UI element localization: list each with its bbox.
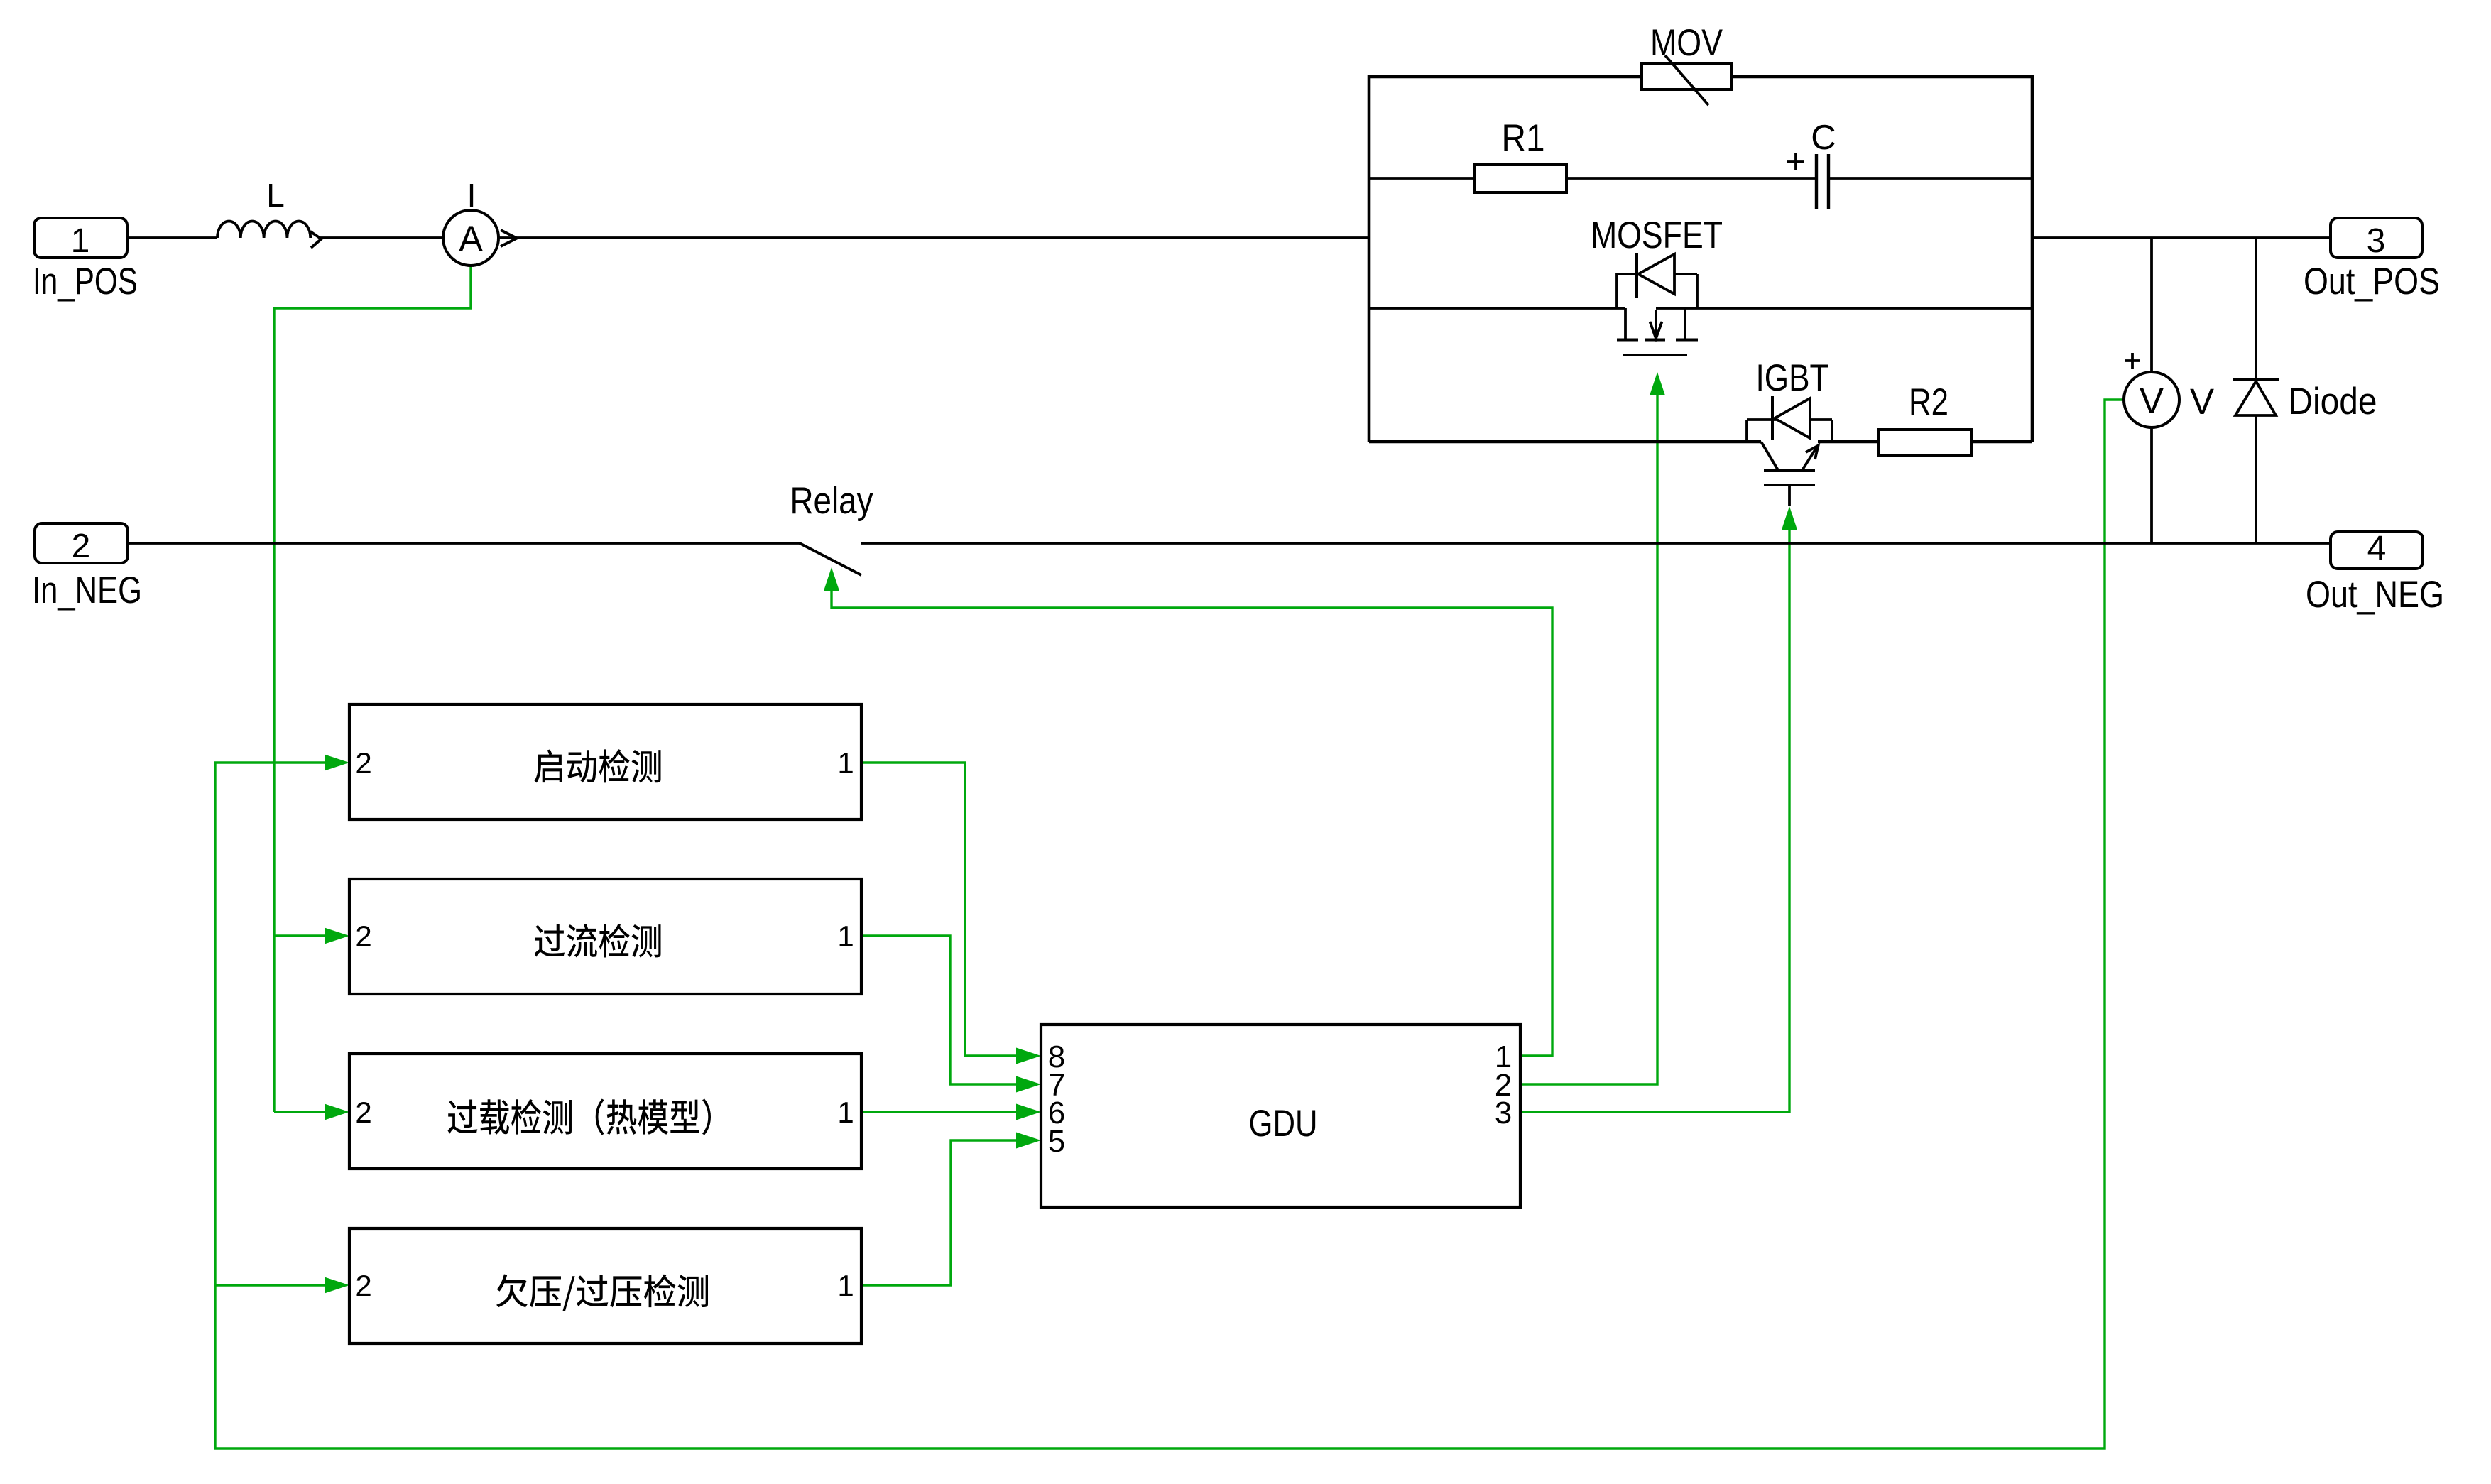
svg-text:2: 2 [72,528,91,565]
wire arrow after inductor [310,231,322,248]
overcurrent detection block 过流检测 [349,879,861,994]
wire GDU pin 2 to MOSFET gate [1520,394,1657,1084]
wire ammeter to snubber block [498,236,1369,239]
svg-text:2: 2 [355,1269,371,1302]
capacitor C [1815,154,1818,209]
under/over-voltage detection block 欠压/过压检测 [349,1228,861,1343]
arrow at IGBT gate [1782,506,1797,530]
svg-text:1: 1 [71,222,90,260]
wire arrow after ammeter [501,230,517,246]
svg-text:L: L [266,177,285,214]
wire snubber block to terminal 3 [2032,236,2331,239]
svg-text:2: 2 [355,1096,371,1129]
svg-text:1: 1 [837,746,854,780]
wire GDU pin 3 to IGBT gate [1520,528,1789,1112]
snubber block outer box [1369,77,2032,442]
svg-text:1: 1 [837,920,854,953]
wire overcurrent block output to GDU pin 7 [861,936,1018,1084]
terminal 1 In_POS [34,218,127,258]
svg-text:Relay: Relay [790,480,873,522]
wire R2 to right edge [1971,440,2032,443]
svg-text:1: 1 [837,1096,854,1129]
startup detection block 启动检测 [349,704,861,819]
arrow into startup block pin 2 [325,755,349,771]
ammeter A (current sensor I) [443,210,498,266]
GDU gate drive unit block [1041,1025,1520,1207]
inductor L [217,222,310,239]
svg-text:3: 3 [1495,1096,1512,1130]
svg-text:R2: R2 [1909,381,1948,423]
svg-text:MOV: MOV [1650,22,1723,64]
label 启动检测 [534,749,660,783]
svg-text:Out_NEG: Out_NEG [2306,574,2444,616]
svg-text:1: 1 [837,1269,854,1302]
svg-text:V: V [2140,381,2164,421]
svg-text:4: 4 [2367,530,2387,567]
wire voltmeter signal down [215,400,2124,1448]
label 过载检测（热模型） [447,1099,711,1135]
svg-text:R1: R1 [1502,117,1545,159]
svg-text:IGBT: IGBT [1756,357,1829,399]
label 过流检测 [534,924,660,958]
wire startup block output to GDU pin 8 [861,763,1018,1056]
svg-text:In_POS: In_POS [33,261,138,302]
svg-text:Diode: Diode [2289,381,2377,422]
svg-text:I: I [467,177,476,214]
wire MOSFET drain to right edge [1656,307,2032,310]
wire into overload block pin 2 [274,1111,327,1113]
wire branch to under/over-voltage block pin 2 [215,1284,327,1286]
wire GDU pin 1 to relay coil [832,589,1552,1056]
svg-text:3: 3 [2367,222,2386,260]
arrow at MOSFET gate [1650,372,1665,395]
wire ammeter signal down-left [274,266,471,1112]
arrow at relay [824,567,839,591]
terminal 2 In_NEG [35,523,128,563]
wire under/over-voltage block output to GDU pin 5 [861,1140,1018,1285]
svg-text:2: 2 [355,920,371,953]
wire overload block output to GDU pin 6 [861,1111,1018,1113]
svg-text:5: 5 [1048,1124,1065,1159]
svg-text:In_NEG: In_NEG [32,569,142,611]
svg-text:Out_POS: Out_POS [2304,261,2440,302]
svg-text:2: 2 [355,746,371,780]
wire negative rail from relay to terminal 4 [861,542,2331,545]
svg-text:GDU: GDU [1249,1103,1318,1145]
terminal 3 Out_POS [2331,218,2422,258]
varistor MOV [1642,64,1731,89]
wire negative rail from terminal 2 to relay [128,542,800,545]
wire MOSFET branch left [1369,307,1625,310]
wire R1-C branch left [1369,177,1475,180]
overload (thermal model) detection block 过载检测（热模型） [349,1054,861,1169]
voltmeter V [2150,238,2153,372]
svg-text:V: V [2190,381,2214,422]
resistor R2 [1879,430,1971,455]
svg-text:A: A [459,219,483,258]
diode across output [2255,238,2257,379]
wire C to right edge [1828,177,2032,180]
label 欠压/过压检测 [496,1274,708,1311]
wire branch to overcurrent block pin 2 [274,934,327,937]
wire inductor to ammeter [320,236,443,239]
terminal 4 Out_NEG [2331,532,2423,569]
svg-text:MOSFET: MOSFET [1591,214,1723,256]
resistor R1 [1475,165,1566,192]
wire R1 to C [1566,177,1816,180]
svg-text:C: C [1811,119,1836,157]
wire positive rail from terminal 1 to inductor [127,236,217,239]
